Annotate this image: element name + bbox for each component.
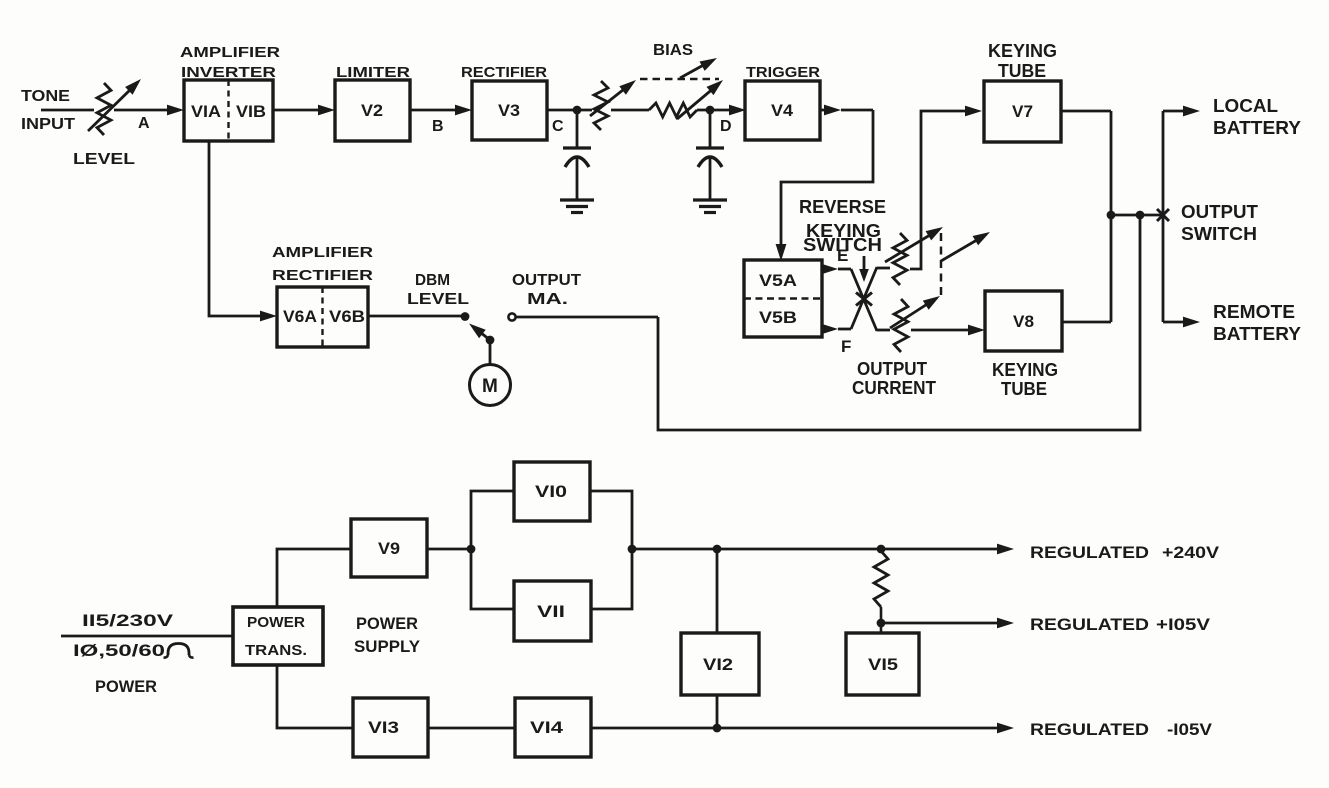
open contact (OUTPUT MA.): [508, 313, 515, 320]
arrow out of V5A: [821, 264, 851, 275]
label REMOTE BATTERY: [1213, 302, 1301, 344]
wire V3 to node C: [547, 106, 592, 115]
label POWER TRANS.: [245, 614, 307, 659]
label V6A: [283, 307, 317, 326]
label RECTIFIER: [461, 64, 547, 81]
wire node up to V10: [471, 491, 514, 549]
regulator box V15: [846, 633, 919, 695]
svg-text:E: E: [837, 246, 848, 265]
regulator box V11: [514, 581, 591, 641]
arrow out of V5B: [821, 324, 851, 335]
capacitor at node C: [563, 110, 591, 199]
wire output switch node down: [1139, 215, 1142, 219]
switch X mark: [856, 293, 872, 306]
+240V rail: [632, 544, 1014, 555]
node C label: [552, 118, 564, 135]
ground (D cap): [693, 200, 727, 213]
label V5A: [759, 271, 797, 290]
bias potentiometer 1 (zigzag): [594, 81, 608, 130]
label 115/230V: [82, 611, 174, 630]
amplifier-inverter box V1A/V1B: [184, 80, 273, 141]
svg-text:+I05V: +I05V: [1156, 615, 1211, 634]
svg-text:V7: V7: [1012, 102, 1033, 121]
svg-text:V4: V4: [771, 101, 794, 120]
wiper arrow bias resistor 2: [677, 80, 723, 119]
svg-text:VIA: VIA: [191, 102, 221, 121]
svg-text:V6B: V6B: [329, 307, 365, 326]
power transformer box: [233, 607, 323, 665]
wire tone input: [41, 109, 172, 112]
wire trans to V9: [277, 549, 351, 607]
svg-text:AMPLIFIER: AMPLIFIER: [272, 244, 373, 261]
svg-text:D: D: [720, 118, 732, 135]
wire rail down to V12: [716, 549, 719, 633]
ground (C cap): [560, 200, 594, 213]
label V1A: [191, 102, 221, 121]
node/net TONE INPUT label: [21, 88, 75, 133]
svg-text:RECTIFIER: RECTIFIER: [272, 267, 373, 284]
wire blade to meter: [489, 340, 492, 365]
svg-text:V8: V8: [1013, 312, 1034, 331]
regulator box V14: [515, 698, 591, 757]
svg-text:TRIGGER: TRIGGER: [746, 64, 820, 81]
label V6B: [329, 307, 365, 326]
gang arrow (BIAS): [680, 58, 717, 78]
wire V9 to parallel node: [427, 545, 475, 554]
keying tube box V8: [985, 291, 1062, 351]
label TRIGGER: [746, 64, 820, 81]
svg-text:TUBE: TUBE: [998, 61, 1046, 81]
wire V6 to switch pole: [368, 312, 469, 321]
arrow into V1: [167, 105, 184, 116]
svg-text:II5/230V: II5/230V: [82, 611, 174, 630]
svg-text:VIB: VIB: [236, 102, 266, 121]
svg-text:V9: V9: [378, 539, 400, 558]
svg-text:VII: VII: [537, 602, 565, 621]
label POWER SUPPLY: [354, 614, 421, 656]
svg-text:REGULATED: REGULATED: [1030, 543, 1149, 562]
svg-text:OUTPUT: OUTPUT: [857, 359, 927, 379]
wire V2 to V3: [410, 105, 472, 116]
label OUTPUT MA.: [512, 272, 581, 308]
wire V11 to right node: [591, 545, 636, 609]
label POWER (input): [95, 677, 157, 696]
label LOCAL BATTERY: [1213, 96, 1301, 138]
svg-text:LOCAL: LOCAL: [1213, 96, 1278, 116]
svg-text:B: B: [432, 118, 444, 135]
wire V12 to -105 rail: [716, 695, 719, 728]
label 1-phase 50/60 cycles: [73, 641, 165, 660]
svg-text:VI3: VI3: [368, 718, 399, 737]
svg-text:V5B: V5B: [759, 308, 797, 327]
wire V7 output: [1061, 110, 1111, 113]
keyer box V5A/V5B: [744, 260, 822, 337]
wire C pot to bias resistor: [611, 109, 649, 112]
label OUTPUT CURRENT: [852, 359, 936, 398]
svg-text:KEYING: KEYING: [992, 360, 1058, 380]
wire to node D: [697, 105, 746, 116]
rectifier box V9: [351, 519, 427, 577]
svg-text:KEYING: KEYING: [988, 41, 1057, 61]
wire V10 to right node: [590, 491, 632, 549]
label REGULATED +240V: [1030, 543, 1220, 562]
wire output MA feedback loop: [516, 219, 1140, 430]
svg-text:TONE: TONE: [21, 88, 70, 105]
svg-text:REGULATED: REGULATED: [1030, 615, 1149, 634]
svg-text:M: M: [482, 376, 498, 397]
svg-text:OUTPUT: OUTPUT: [512, 272, 581, 289]
svg-text:VI2: VI2: [703, 655, 733, 674]
svg-text:AMPLIFIER: AMPLIFIER: [180, 44, 280, 61]
wire rheostat1 up to V7: [910, 106, 982, 269]
output switch vertical wire: [1162, 111, 1165, 322]
svg-text:SUPPLY: SUPPLY: [354, 637, 421, 656]
gang dashed link (BIAS): [640, 78, 719, 81]
svg-text:BIAS: BIAS: [653, 42, 693, 59]
svg-text:C: C: [552, 118, 564, 135]
wire V7/V8 junction vertical: [1107, 111, 1116, 322]
label REVERSE KEYING SWITCH: [799, 197, 886, 255]
arrow to remote battery: [1163, 317, 1200, 328]
label AMPLIFIER RECTIFIER: [272, 244, 373, 284]
svg-text:V3: V3: [498, 101, 520, 120]
gang dashed link (output current): [940, 233, 943, 295]
svg-text:VI4: VI4: [530, 718, 564, 737]
wiper arrow of LEVEL pot: [88, 79, 141, 131]
svg-text:OUTPUT: OUTPUT: [1181, 202, 1258, 222]
svg-text:TRANS.: TRANS.: [245, 642, 307, 659]
svg-text:LEVEL: LEVEL: [73, 151, 135, 168]
label LIMITER: [336, 64, 410, 81]
node B label: [432, 118, 444, 135]
wire power input: [61, 635, 233, 638]
svg-text:MA.: MA.: [527, 291, 568, 308]
rectifier box V13: [353, 698, 428, 757]
node E label: [837, 246, 848, 265]
output current rheostat 2 (zigzag): [894, 299, 908, 352]
wiper arrow rheostat 2: [890, 296, 940, 328]
wire V4 output with arrow: [776, 105, 873, 261]
svg-text:INVERTER: INVERTER: [181, 64, 276, 81]
svg-text:VI0: VI0: [535, 482, 567, 501]
amplifier-rectifier box V6A/V6B: [277, 287, 368, 347]
meter M: [470, 365, 511, 406]
switch actuate arrow (down): [859, 256, 869, 282]
svg-text:RECTIFIER: RECTIFIER: [461, 64, 547, 81]
regulator box V10: [514, 462, 590, 521]
svg-text:REGULATED: REGULATED: [1030, 720, 1149, 739]
svg-text:LIMITER: LIMITER: [336, 64, 410, 81]
node D label: [720, 118, 732, 135]
svg-text:V2: V2: [361, 101, 383, 120]
wiper arrow bias pot 1: [590, 80, 636, 116]
svg-text:V6A: V6A: [283, 307, 317, 326]
cycles wave glyph: [164, 644, 194, 658]
svg-text:IØ,50/60: IØ,50/60: [73, 641, 165, 660]
svg-text:BATTERY: BATTERY: [1213, 118, 1301, 138]
label V1B: [236, 102, 266, 121]
wire V13 to V14: [428, 727, 515, 730]
bias resistor 2 (horizontal zigzag): [649, 103, 697, 117]
capacitor at node D: [696, 110, 724, 199]
wire junction to output switch: [1111, 211, 1163, 220]
wire V1 to V2: [273, 105, 335, 116]
gang arrow (output current): [941, 232, 990, 261]
svg-text:INPUT: INPUT: [21, 116, 75, 133]
svg-text:REMOTE: REMOTE: [1213, 302, 1295, 322]
label OUTPUT SWITCH: [1181, 202, 1258, 244]
svg-text:V5A: V5A: [759, 271, 797, 290]
-105V rail: [591, 723, 1014, 734]
svg-text:F: F: [841, 337, 851, 356]
wire V8 output: [1062, 321, 1111, 324]
rectifier box V3: [472, 81, 547, 140]
wire V1 to V6: [209, 141, 277, 321]
label LEVEL: [73, 151, 135, 168]
wiper arrow rheostat 1: [885, 227, 943, 262]
svg-text:VI5: VI5: [868, 655, 898, 674]
keying tube box V7: [984, 81, 1061, 142]
svg-text:DBM: DBM: [415, 272, 450, 289]
label BIAS: [653, 42, 693, 59]
svg-text:TUBE: TUBE: [1001, 379, 1047, 399]
output switch X mark: [1157, 209, 1169, 221]
trigger box V4: [745, 81, 820, 140]
limiter box V2: [335, 80, 410, 141]
potentiometer LEVEL (zigzag): [97, 83, 111, 135]
label DBM LEVEL: [407, 272, 469, 308]
+105V wire: [881, 618, 1014, 629]
node F label: [841, 337, 851, 356]
wire node down to V11: [471, 549, 514, 609]
label REGULATED -105V: [1030, 720, 1213, 739]
node A label: [138, 115, 150, 132]
resistor to V15 (zigzag): [874, 551, 888, 633]
svg-text:CURRENT: CURRENT: [852, 378, 936, 398]
label REGULATED +105V: [1030, 615, 1211, 634]
regulator box V12: [681, 633, 759, 695]
label AMPLIFIER (top): [180, 44, 280, 61]
reverse keying switch crossover wires: [851, 267, 877, 331]
label V5B: [759, 308, 797, 327]
svg-text:POWER: POWER: [356, 614, 418, 633]
svg-text:POWER: POWER: [95, 677, 157, 696]
label KEYING TUBE (V8): [992, 360, 1058, 399]
wire E to rheostat: [877, 267, 890, 270]
svg-text:+240V: +240V: [1162, 543, 1220, 562]
label KEYING TUBE (V7): [988, 41, 1057, 81]
wire F to V8: [877, 325, 985, 336]
svg-text:A: A: [138, 115, 150, 132]
arrow to local battery: [1163, 106, 1200, 117]
svg-text:BATTERY: BATTERY: [1213, 324, 1301, 344]
svg-text:SWITCH: SWITCH: [1181, 224, 1257, 244]
wire trans to V13: [277, 665, 353, 728]
svg-text:-I05V: -I05V: [1167, 720, 1213, 739]
svg-text:REVERSE: REVERSE: [799, 197, 886, 217]
svg-text:POWER: POWER: [247, 614, 305, 631]
svg-text:LEVEL: LEVEL: [407, 291, 469, 308]
output current rheostat 1 (zigzag): [893, 233, 907, 285]
switch blade with arrow: [469, 324, 494, 345]
label INVERTER: [181, 64, 276, 81]
